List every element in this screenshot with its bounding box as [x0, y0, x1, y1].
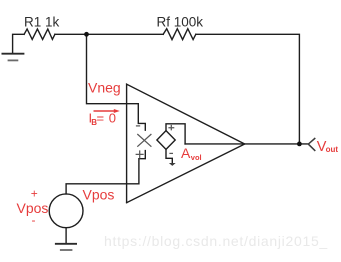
svg-text:https://blog.csdn.net/dianji20: https://blog.csdn.net/dianji2015_: [104, 233, 328, 249]
svg-text:=: =: [97, 111, 105, 126]
svg-text:Vpos: Vpos: [83, 187, 115, 203]
svg-text:+: +: [31, 187, 38, 201]
svg-text:out: out: [326, 145, 339, 154]
svg-text:0: 0: [109, 111, 116, 126]
svg-text:Vneg: Vneg: [88, 80, 121, 96]
svg-text:A: A: [181, 145, 191, 161]
svg-text:-: -: [32, 213, 36, 227]
svg-text:Rf 100k: Rf 100k: [157, 15, 204, 30]
svg-text:R1 1k: R1 1k: [24, 15, 60, 30]
svg-text:vol: vol: [191, 153, 202, 162]
